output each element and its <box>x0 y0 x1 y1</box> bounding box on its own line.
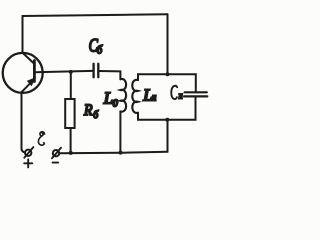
wire Cб to L0 corner <box>99 71 120 79</box>
EMF label ℰ <box>38 132 44 145</box>
node tank top junction <box>166 72 170 76</box>
svg-text:б: б <box>97 44 104 57</box>
label + <box>24 159 32 167</box>
svg-text:б: б <box>93 109 99 121</box>
svg-text:0: 0 <box>113 99 118 110</box>
wire tank top <box>138 74 196 91</box>
node Rб-rail junction <box>69 151 73 155</box>
wire bottom rail <box>59 152 167 153</box>
wire top rail <box>23 14 168 16</box>
transistor VT1 <box>3 53 43 93</box>
wire emitter down <box>22 93 25 152</box>
terminal + <box>24 147 33 158</box>
svg-text:н: н <box>179 90 184 101</box>
wire tank bottom feed <box>167 120 169 152</box>
svg-text:н: н <box>152 92 156 103</box>
label Cн <box>171 86 183 101</box>
svg-text:L: L <box>103 89 113 108</box>
label − <box>53 162 59 164</box>
node L0-rail junction <box>119 151 123 155</box>
resistor Rб <box>65 72 74 153</box>
svg-text:R: R <box>83 102 92 119</box>
wire collector riser <box>22 16 24 53</box>
svg-text:L: L <box>142 85 152 104</box>
wire tank bottom <box>138 97 196 120</box>
inductor L0 <box>120 79 126 153</box>
node tank bottom junction <box>165 118 169 122</box>
wire base to Cб <box>35 71 93 72</box>
label Rб <box>83 102 99 121</box>
capacitor Cб <box>94 64 99 77</box>
wire tank top feed <box>167 14 169 74</box>
label L0 <box>103 89 118 110</box>
label Lн <box>142 85 156 104</box>
terminal − <box>52 148 61 159</box>
label Cб <box>89 35 104 57</box>
node base-Rб junction <box>69 70 73 74</box>
capacitor Cн <box>184 92 207 96</box>
inductor Lн <box>132 80 138 113</box>
